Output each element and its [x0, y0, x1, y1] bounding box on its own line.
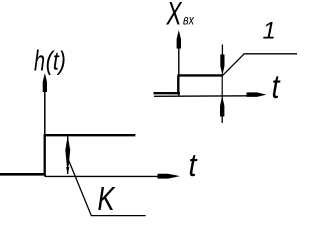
right graph: leader line to 1 label: [223, 54, 297, 76]
left graph: vertical axis h(t): [44, 76, 46, 177]
right graph: step rise: [177, 75, 179, 94]
left graph: leader line to K label: [68, 158, 146, 216]
left graph: signal baseline before step: [0, 173, 46, 176]
right graph: t axis: [154, 95, 250, 98]
left graph: step top level K: [44, 134, 136, 136]
left graph: step rise: [44, 135, 46, 175]
svg-text:X: X: [166, 0, 183, 32]
svg-text:вх: вх: [183, 13, 195, 28]
right graph: t axis arrowhead: [247, 92, 267, 97]
right graph: dimension extension line: [221, 74, 223, 100]
left graph: vertical axis arrowhead: [43, 73, 47, 92]
svg-text:t: t: [189, 147, 198, 183]
right graph: vertical axis Xin: [178, 33, 180, 96]
left graph: dimension double arrow for K: [65, 136, 70, 167]
right graph: upper dimension arrow pointing down: [221, 45, 223, 61]
left graph: t axis arrowhead: [158, 174, 181, 179]
left graph: t axis: [45, 175, 176, 177]
right graph: vertical axis arrowhead: [177, 30, 181, 49]
svg-text:(t): (t): [46, 47, 66, 75]
right graph: signal baseline before step: [154, 92, 181, 94]
svg-text:h: h: [34, 45, 45, 77]
right graph: lower dimension arrow pointing up: [220, 96, 224, 117]
right graph: step top level 1: [178, 74, 223, 76]
svg-text:1: 1: [263, 18, 276, 45]
svg-text:K: K: [98, 180, 117, 217]
